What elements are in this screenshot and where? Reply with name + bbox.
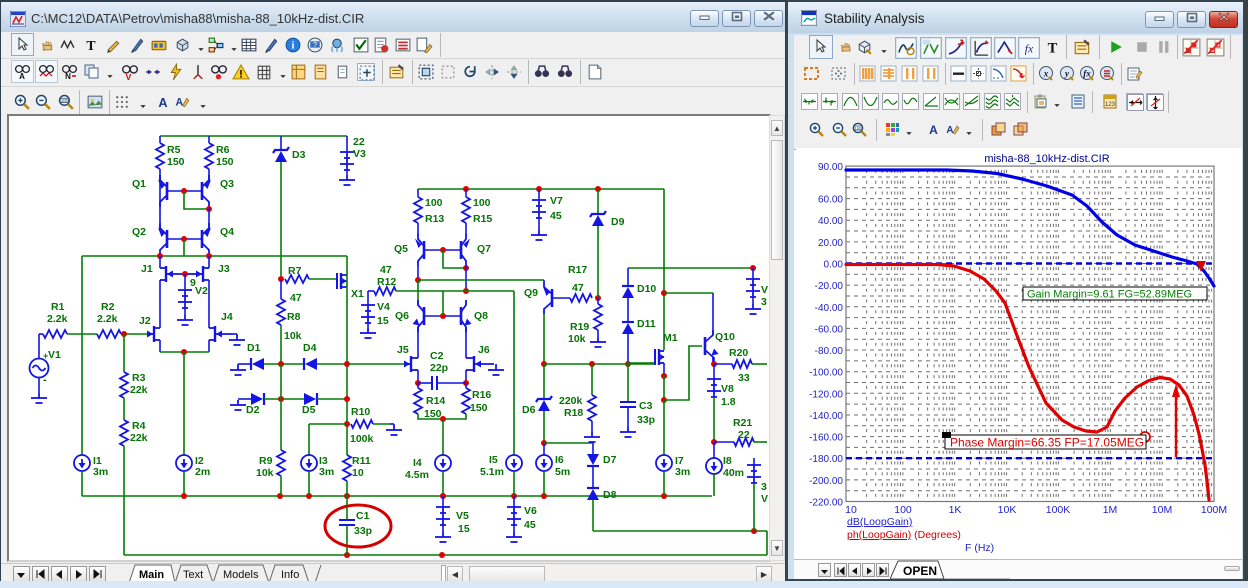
junction rail Q4 bbox=[206, 253, 212, 259]
svg-text:-60.00: -60.00 bbox=[815, 324, 844, 335]
svg-text:R14: R14 bbox=[426, 395, 445, 407]
ground V4 bbox=[360, 328, 376, 338]
svg-text:-160.00: -160.00 bbox=[809, 433, 843, 444]
wire D10 top bbox=[627, 268, 629, 286]
svg-text:-220.00: -220.00 bbox=[809, 498, 843, 509]
svg-text:C3: C3 bbox=[639, 400, 653, 412]
svg-text:C2: C2 bbox=[430, 350, 444, 362]
svg-text:V: V bbox=[761, 284, 768, 296]
wire bbox=[393, 424, 395, 425]
battery V3 bbox=[340, 152, 354, 170]
svg-text:220k: 220k bbox=[559, 395, 583, 407]
svg-text:M1: M1 bbox=[663, 332, 678, 344]
resistor R16 bbox=[462, 388, 470, 414]
svg-text:3m: 3m bbox=[93, 466, 108, 478]
wire base tie to Q3 collector bbox=[184, 191, 209, 209]
wire R15 to Q7 bbox=[465, 223, 467, 235]
wire D2 to D5 bbox=[264, 398, 304, 400]
wire I2 to ground rail bbox=[183, 471, 185, 496]
ground J6 gate bbox=[488, 365, 504, 375]
wire R13 top bbox=[417, 189, 419, 197]
resistor R8 bbox=[277, 299, 285, 325]
svg-text:A: A bbox=[946, 125, 953, 136]
svg-text:Q6: Q6 bbox=[395, 310, 409, 322]
wire V5 bottom bbox=[442, 525, 444, 532]
junction Q10 collector wire bbox=[661, 290, 667, 296]
svg-text:5m: 5m bbox=[555, 466, 570, 478]
svg-text:100k: 100k bbox=[350, 433, 374, 445]
wire to J5 gate bbox=[347, 363, 405, 365]
wire V10 bottom bbox=[752, 297, 754, 304]
junction R21/I8 bbox=[711, 439, 717, 445]
junction rail D9 bbox=[595, 186, 601, 192]
svg-text:Q2: Q2 bbox=[132, 226, 146, 238]
wire R19 top bbox=[597, 298, 599, 304]
junction rail V5 bbox=[440, 493, 446, 499]
svg-text:Phase Margin=66.35 FP=17.05MEG: Phase Margin=66.35 FP=17.05MEG bbox=[950, 436, 1144, 450]
svg-text:Q8: Q8 bbox=[474, 310, 488, 322]
current source I5 bbox=[506, 455, 522, 471]
svg-text:x: x bbox=[1043, 69, 1049, 79]
ground V1 bbox=[31, 393, 47, 403]
wire top rail V3 bbox=[160, 135, 347, 137]
junction ground rail I5 bbox=[511, 493, 517, 499]
svg-text:R13: R13 bbox=[425, 213, 444, 225]
svg-text:V3: V3 bbox=[353, 148, 366, 160]
wire Q8 emitter to J6 bbox=[465, 327, 467, 358]
ground R18 bbox=[584, 432, 600, 442]
svg-text:R12: R12 bbox=[377, 276, 396, 288]
transistor Q3 bbox=[202, 175, 209, 207]
wire V1 to ground bbox=[38, 377, 40, 393]
wire VAS output row bbox=[544, 363, 654, 365]
x axis labels bbox=[845, 504, 1227, 516]
annotation Phase Margin box bbox=[945, 435, 1146, 449]
wire V6 bottom bbox=[513, 525, 515, 532]
wire C2 left lead bbox=[418, 382, 431, 384]
diode D1 bbox=[252, 358, 264, 370]
junction M1 source bbox=[661, 373, 667, 379]
status strip bbox=[0, 581, 1248, 588]
svg-text:D3: D3 bbox=[292, 149, 306, 161]
svg-text:R3: R3 bbox=[132, 372, 146, 384]
svg-text:45: 45 bbox=[550, 210, 562, 222]
zener diode D6 bbox=[538, 400, 550, 411]
junction tail bbox=[181, 349, 187, 355]
wire I1 to ground rail bbox=[81, 471, 83, 496]
wire R21 out clipped bbox=[754, 441, 767, 443]
wire Q2-Q4 bases bbox=[167, 238, 202, 240]
svg-text:Q10: Q10 bbox=[715, 331, 735, 343]
svg-text:2.2k: 2.2k bbox=[47, 313, 68, 325]
resistor R10 bbox=[351, 420, 373, 428]
wire V8 top bbox=[713, 364, 715, 379]
wire I6 bottom bbox=[543, 471, 545, 496]
wire V9 top stub bbox=[753, 458, 755, 465]
wire bbox=[159, 255, 161, 256]
wire V7 top bbox=[538, 189, 540, 200]
current source I4 bbox=[435, 455, 451, 471]
svg-text:X1: X1 bbox=[351, 288, 364, 300]
svg-text:R1: R1 bbox=[51, 301, 65, 313]
grid bbox=[867, 166, 1214, 501]
wire R3 top bbox=[123, 334, 125, 372]
marker gain crossover bbox=[1196, 261, 1206, 272]
svg-text:A: A bbox=[176, 97, 184, 109]
svg-text:C1: C1 bbox=[356, 510, 370, 522]
wire V10 top bbox=[752, 268, 754, 279]
wire R12 node to I5 column bbox=[466, 290, 514, 292]
wire output lower rail bbox=[593, 530, 767, 532]
junction rail V7 bbox=[536, 186, 542, 192]
capacitor C2 bbox=[432, 376, 437, 390]
svg-text:10k: 10k bbox=[256, 467, 274, 479]
current source I2 bbox=[176, 455, 192, 471]
right edge dark background bbox=[1245, 0, 1248, 581]
JFET J6 bbox=[466, 356, 494, 372]
svg-text:R8: R8 bbox=[287, 311, 301, 323]
transistor Q9 bbox=[544, 282, 552, 314]
junction R18 bbox=[589, 361, 595, 367]
wire R7 to X1 gate bbox=[309, 278, 337, 280]
wire I6 top bbox=[543, 443, 545, 455]
wire R9 top bbox=[280, 399, 282, 450]
wire R18 bottom bbox=[591, 421, 593, 432]
wire V6 top bbox=[513, 496, 515, 507]
wire D5 to X1 column bbox=[317, 398, 347, 400]
wire Q5-Q7 bases bbox=[424, 249, 461, 251]
transistor Q5 bbox=[418, 234, 424, 266]
ground D2 bbox=[230, 400, 246, 410]
wire I7 top bbox=[663, 400, 665, 455]
junction R14/R16/I4 bbox=[440, 416, 446, 422]
junction rail R15 bbox=[463, 186, 469, 192]
svg-text:-40.00: -40.00 bbox=[815, 303, 844, 314]
svg-text:Main: Main bbox=[139, 569, 164, 581]
wire R1 to R2 bbox=[67, 333, 97, 335]
svg-text:D5: D5 bbox=[302, 404, 316, 416]
resistor R15 bbox=[462, 197, 470, 223]
svg-text:R6: R6 bbox=[216, 144, 230, 156]
svg-text:47: 47 bbox=[290, 292, 302, 304]
wire Q1 collector to Q2 emitter bbox=[159, 207, 161, 231]
resistor R9 bbox=[277, 450, 285, 476]
wire J3 drain bbox=[208, 256, 210, 268]
svg-text:Q3: Q3 bbox=[220, 178, 234, 190]
wire to R20 bbox=[714, 363, 732, 365]
svg-text:3: 3 bbox=[761, 481, 767, 493]
wire top clamp rail bbox=[628, 267, 753, 269]
wire M1 drain column bbox=[663, 189, 665, 350]
resistor R2 bbox=[97, 330, 121, 338]
wire Q9 emitter bbox=[543, 280, 545, 282]
svg-text:Q7: Q7 bbox=[477, 243, 491, 255]
wire base tie riser bbox=[442, 291, 444, 316]
annotation ellipse around C1 bbox=[325, 505, 391, 547]
svg-text:150: 150 bbox=[216, 156, 234, 168]
junction Q9 collector/D6 bbox=[541, 361, 547, 367]
wire I8 top bbox=[713, 442, 715, 458]
diode D10 bbox=[622, 287, 634, 298]
source V1 bbox=[30, 359, 49, 378]
wire R14 bottom bbox=[418, 414, 443, 419]
wire J6 source bbox=[465, 370, 467, 383]
wire D6 top bbox=[543, 364, 545, 399]
curve dB(LoopGain) bbox=[846, 170, 1214, 286]
junction I6/D7 bbox=[541, 440, 547, 446]
wire right edge drop bbox=[766, 531, 768, 555]
svg-text:i: i bbox=[292, 41, 295, 52]
wire bottom feedback rail bbox=[124, 554, 767, 556]
transistor Q2 bbox=[160, 223, 167, 255]
ground R19 bbox=[590, 337, 606, 347]
wire to R21 bbox=[714, 441, 734, 443]
wire I5 bottom bbox=[513, 471, 515, 496]
svg-text:T: T bbox=[1048, 41, 1058, 57]
junction Q2/Q4 base bbox=[181, 236, 187, 242]
svg-text:V8: V8 bbox=[721, 383, 734, 395]
svg-text:-120.00: -120.00 bbox=[809, 389, 843, 400]
svg-text:33p: 33p bbox=[354, 525, 372, 537]
svg-text:Q5: Q5 bbox=[394, 243, 408, 255]
svg-text:3m: 3m bbox=[675, 466, 690, 478]
resistor R13 bbox=[414, 197, 422, 223]
wire row to M1 gate bbox=[628, 362, 654, 364]
svg-text:!: ! bbox=[239, 68, 243, 80]
svg-text:4.5m: 4.5m bbox=[405, 469, 429, 481]
svg-text:22: 22 bbox=[353, 136, 365, 148]
MOSFET X1 bbox=[337, 273, 347, 289]
junction ground rail I3 bbox=[306, 493, 312, 499]
junction rail Q2 bbox=[157, 253, 163, 259]
svg-text:22: 22 bbox=[738, 429, 750, 441]
plot page tabs bbox=[794, 559, 1242, 579]
wire I3 top bbox=[308, 424, 310, 455]
resistor R19 bbox=[594, 304, 602, 330]
svg-text:D8: D8 bbox=[603, 489, 617, 501]
JFET J5 bbox=[405, 356, 418, 372]
wire J2 source bbox=[159, 340, 161, 352]
svg-text:A: A bbox=[929, 123, 938, 137]
wire mirror output rail bbox=[82, 255, 347, 257]
reference line 0 dB bbox=[846, 262, 1214, 264]
battery V10 bbox=[746, 279, 760, 297]
diode D8 bbox=[587, 489, 599, 500]
wire D9 top bbox=[597, 189, 599, 214]
junction J5 source/C2/R14 bbox=[415, 380, 421, 386]
wire bbox=[236, 334, 238, 335]
svg-text:D6: D6 bbox=[522, 404, 536, 416]
svg-text:V6: V6 bbox=[524, 505, 537, 517]
wire X1 column lower bbox=[346, 364, 348, 455]
transistor Q10 bbox=[705, 330, 713, 362]
ground R10 bbox=[386, 425, 402, 435]
y axis labels bbox=[809, 162, 843, 508]
diode D2 bbox=[251, 393, 263, 405]
ground C3 bbox=[620, 427, 636, 437]
resistor R21 bbox=[734, 438, 754, 446]
junction Q10 emitter/R20/V8 bbox=[711, 361, 717, 367]
wire C1 top bbox=[346, 496, 348, 520]
svg-text:-80.00: -80.00 bbox=[815, 346, 844, 357]
svg-text:90.00: 90.00 bbox=[818, 162, 843, 173]
svg-text:D2: D2 bbox=[246, 404, 260, 416]
svg-text:0.00: 0.00 bbox=[824, 260, 844, 271]
svg-text:J3: J3 bbox=[218, 263, 230, 275]
svg-text:60.00: 60.00 bbox=[818, 195, 843, 206]
wire C1 bottom bbox=[346, 525, 348, 555]
wire R15 top bbox=[465, 189, 467, 197]
wire I7 bottom bbox=[663, 471, 665, 496]
wire R5 to Q1 bbox=[159, 169, 161, 182]
JFET J4 bbox=[209, 326, 233, 342]
svg-text:V5: V5 bbox=[456, 510, 469, 522]
junction D2/D5/R9 bbox=[278, 396, 284, 402]
wire R6 top stub bbox=[208, 136, 210, 143]
svg-text:3m: 3m bbox=[319, 466, 334, 478]
svg-text:100: 100 bbox=[855, 126, 862, 131]
svg-text:10K: 10K bbox=[998, 504, 1017, 516]
diode D5 bbox=[304, 393, 316, 405]
ground V10 bbox=[745, 304, 761, 314]
svg-text:15: 15 bbox=[458, 523, 470, 535]
wire tail to I2 bbox=[183, 352, 185, 455]
wire V2 to ground bbox=[184, 308, 186, 315]
curve ph(LoopGain) bbox=[846, 265, 1209, 501]
resistor R20 bbox=[732, 360, 752, 368]
wire R12 left bbox=[368, 290, 374, 292]
junction R17/R19/D9 bbox=[595, 295, 601, 301]
battery V9 bbox=[747, 465, 761, 483]
svg-text:1M: 1M bbox=[1103, 504, 1118, 516]
junction ground rail I7 bbox=[661, 493, 667, 499]
junction ground rail I2 bbox=[181, 493, 187, 499]
left window: schematic editor bbox=[0, 0, 786, 582]
wire J5 source bbox=[417, 370, 419, 383]
wire M1 source to bias bbox=[663, 376, 665, 400]
wire R16 bottom bbox=[443, 414, 466, 419]
wire J3 source to J4 drain bbox=[208, 280, 210, 328]
capacitor C1 bbox=[339, 520, 355, 525]
resistor R5 bbox=[156, 143, 164, 169]
wire to Q6 collector bbox=[417, 280, 419, 305]
diode D7 bbox=[587, 454, 599, 465]
svg-text:R5: R5 bbox=[167, 144, 181, 156]
wire V3 to ground bbox=[346, 170, 348, 175]
wire D9 to R17 node bbox=[597, 226, 599, 298]
junction Q5 collector node bbox=[415, 277, 421, 283]
svg-text:33: 33 bbox=[738, 372, 750, 384]
junction D1/D4/R8 bbox=[278, 361, 284, 367]
wire bbox=[654, 363, 656, 365]
wire gates to V2 bbox=[184, 274, 186, 290]
junction I7/Q10 base wire bbox=[661, 397, 667, 403]
wire diff pair tail bbox=[160, 351, 209, 353]
right window: Stability Analysis bbox=[786, 0, 1245, 581]
battery V4 bbox=[361, 305, 375, 323]
resistor R3 bbox=[120, 372, 128, 398]
junction Q1/Q3 base bbox=[181, 188, 187, 194]
wire R10 to ground bbox=[373, 423, 390, 425]
wire D3 to R7 node bbox=[280, 162, 282, 279]
svg-text:100: 100 bbox=[61, 98, 69, 103]
svg-text:R11: R11 bbox=[352, 455, 371, 467]
svg-text:2m: 2m bbox=[195, 466, 210, 478]
battery V2 bbox=[178, 290, 192, 308]
annotation Gain Margin box bbox=[1023, 287, 1207, 300]
wire Q2/Q4 base tie to rail bbox=[183, 239, 185, 256]
wire V1 top bbox=[38, 334, 40, 358]
svg-text:V: V bbox=[126, 72, 132, 81]
capacitor C3 bbox=[620, 402, 636, 407]
svg-text:D9: D9 bbox=[611, 216, 625, 228]
wire R18 top bbox=[591, 364, 593, 395]
ground V3 bbox=[339, 175, 355, 185]
wire J1 drain bbox=[159, 256, 161, 268]
wire J1 source to J2 drain bbox=[159, 280, 161, 328]
marker phase circle bbox=[1140, 432, 1150, 442]
svg-text:-20.00: -20.00 bbox=[815, 281, 844, 292]
svg-text:Text: Text bbox=[183, 569, 203, 581]
svg-text:dB(LoopGain): dB(LoopGain) bbox=[847, 516, 912, 528]
svg-text:10: 10 bbox=[845, 504, 857, 516]
svg-text:-: - bbox=[43, 374, 47, 386]
svg-text:R20: R20 bbox=[729, 347, 748, 359]
wire C3 bottom bbox=[627, 407, 629, 427]
svg-text:Gain Margin=9.61 FG=52.89MEG: Gain Margin=9.61 FG=52.89MEG bbox=[1027, 289, 1192, 301]
svg-text:22p: 22p bbox=[430, 362, 448, 374]
svg-text:V1: V1 bbox=[48, 349, 61, 361]
plot frame bbox=[846, 166, 1214, 501]
wire Q5 collector bbox=[417, 266, 419, 280]
svg-text:100: 100 bbox=[894, 504, 912, 516]
svg-text:fx: fx bbox=[1025, 43, 1034, 56]
transistor Q1 bbox=[160, 175, 167, 207]
wire D7 to D8 bbox=[592, 466, 594, 488]
svg-text:ph(LoopGain) (Degrees): ph(LoopGain) (Degrees) bbox=[847, 529, 961, 541]
svg-text:40.00: 40.00 bbox=[818, 216, 843, 227]
junction Q7 collector bbox=[463, 265, 469, 271]
wire R13 to Q5 bbox=[417, 223, 419, 235]
wire V5 top bbox=[442, 496, 444, 507]
svg-text:Q4: Q4 bbox=[220, 226, 234, 238]
wire R2 to J2 gate bbox=[124, 333, 147, 335]
junction R7/R8/D3 bbox=[278, 276, 284, 282]
wire I4 bottom bbox=[442, 471, 444, 496]
wire Q6 emitter to J5 bbox=[417, 327, 419, 358]
svg-text:-180.00: -180.00 bbox=[809, 454, 843, 465]
wire R14 top bbox=[417, 383, 419, 388]
svg-text:D11: D11 bbox=[637, 318, 656, 330]
svg-text:OPEN: OPEN bbox=[903, 564, 937, 578]
junction Q6/Q8 bases bbox=[440, 313, 446, 319]
ground V6 bbox=[506, 532, 522, 542]
svg-text:J4: J4 bbox=[221, 311, 233, 323]
wire D6 bottom bbox=[543, 411, 545, 443]
junction bottom rail C1 bbox=[344, 552, 350, 558]
reference line -180 degrees bbox=[846, 457, 1214, 459]
svg-text:100M: 100M bbox=[1201, 504, 1227, 516]
svg-text:45: 45 bbox=[524, 519, 536, 531]
schematic vertical scrollbar bbox=[769, 115, 785, 561]
junction ground rail R11 bbox=[344, 493, 350, 499]
resistor R1 bbox=[43, 330, 67, 338]
wire to Q10 collector bbox=[664, 292, 713, 294]
resistor R4 bbox=[120, 420, 128, 446]
junction ground rail I4 bbox=[440, 493, 446, 499]
svg-text:Q9: Q9 bbox=[524, 287, 538, 299]
svg-text:10k: 10k bbox=[284, 330, 302, 342]
